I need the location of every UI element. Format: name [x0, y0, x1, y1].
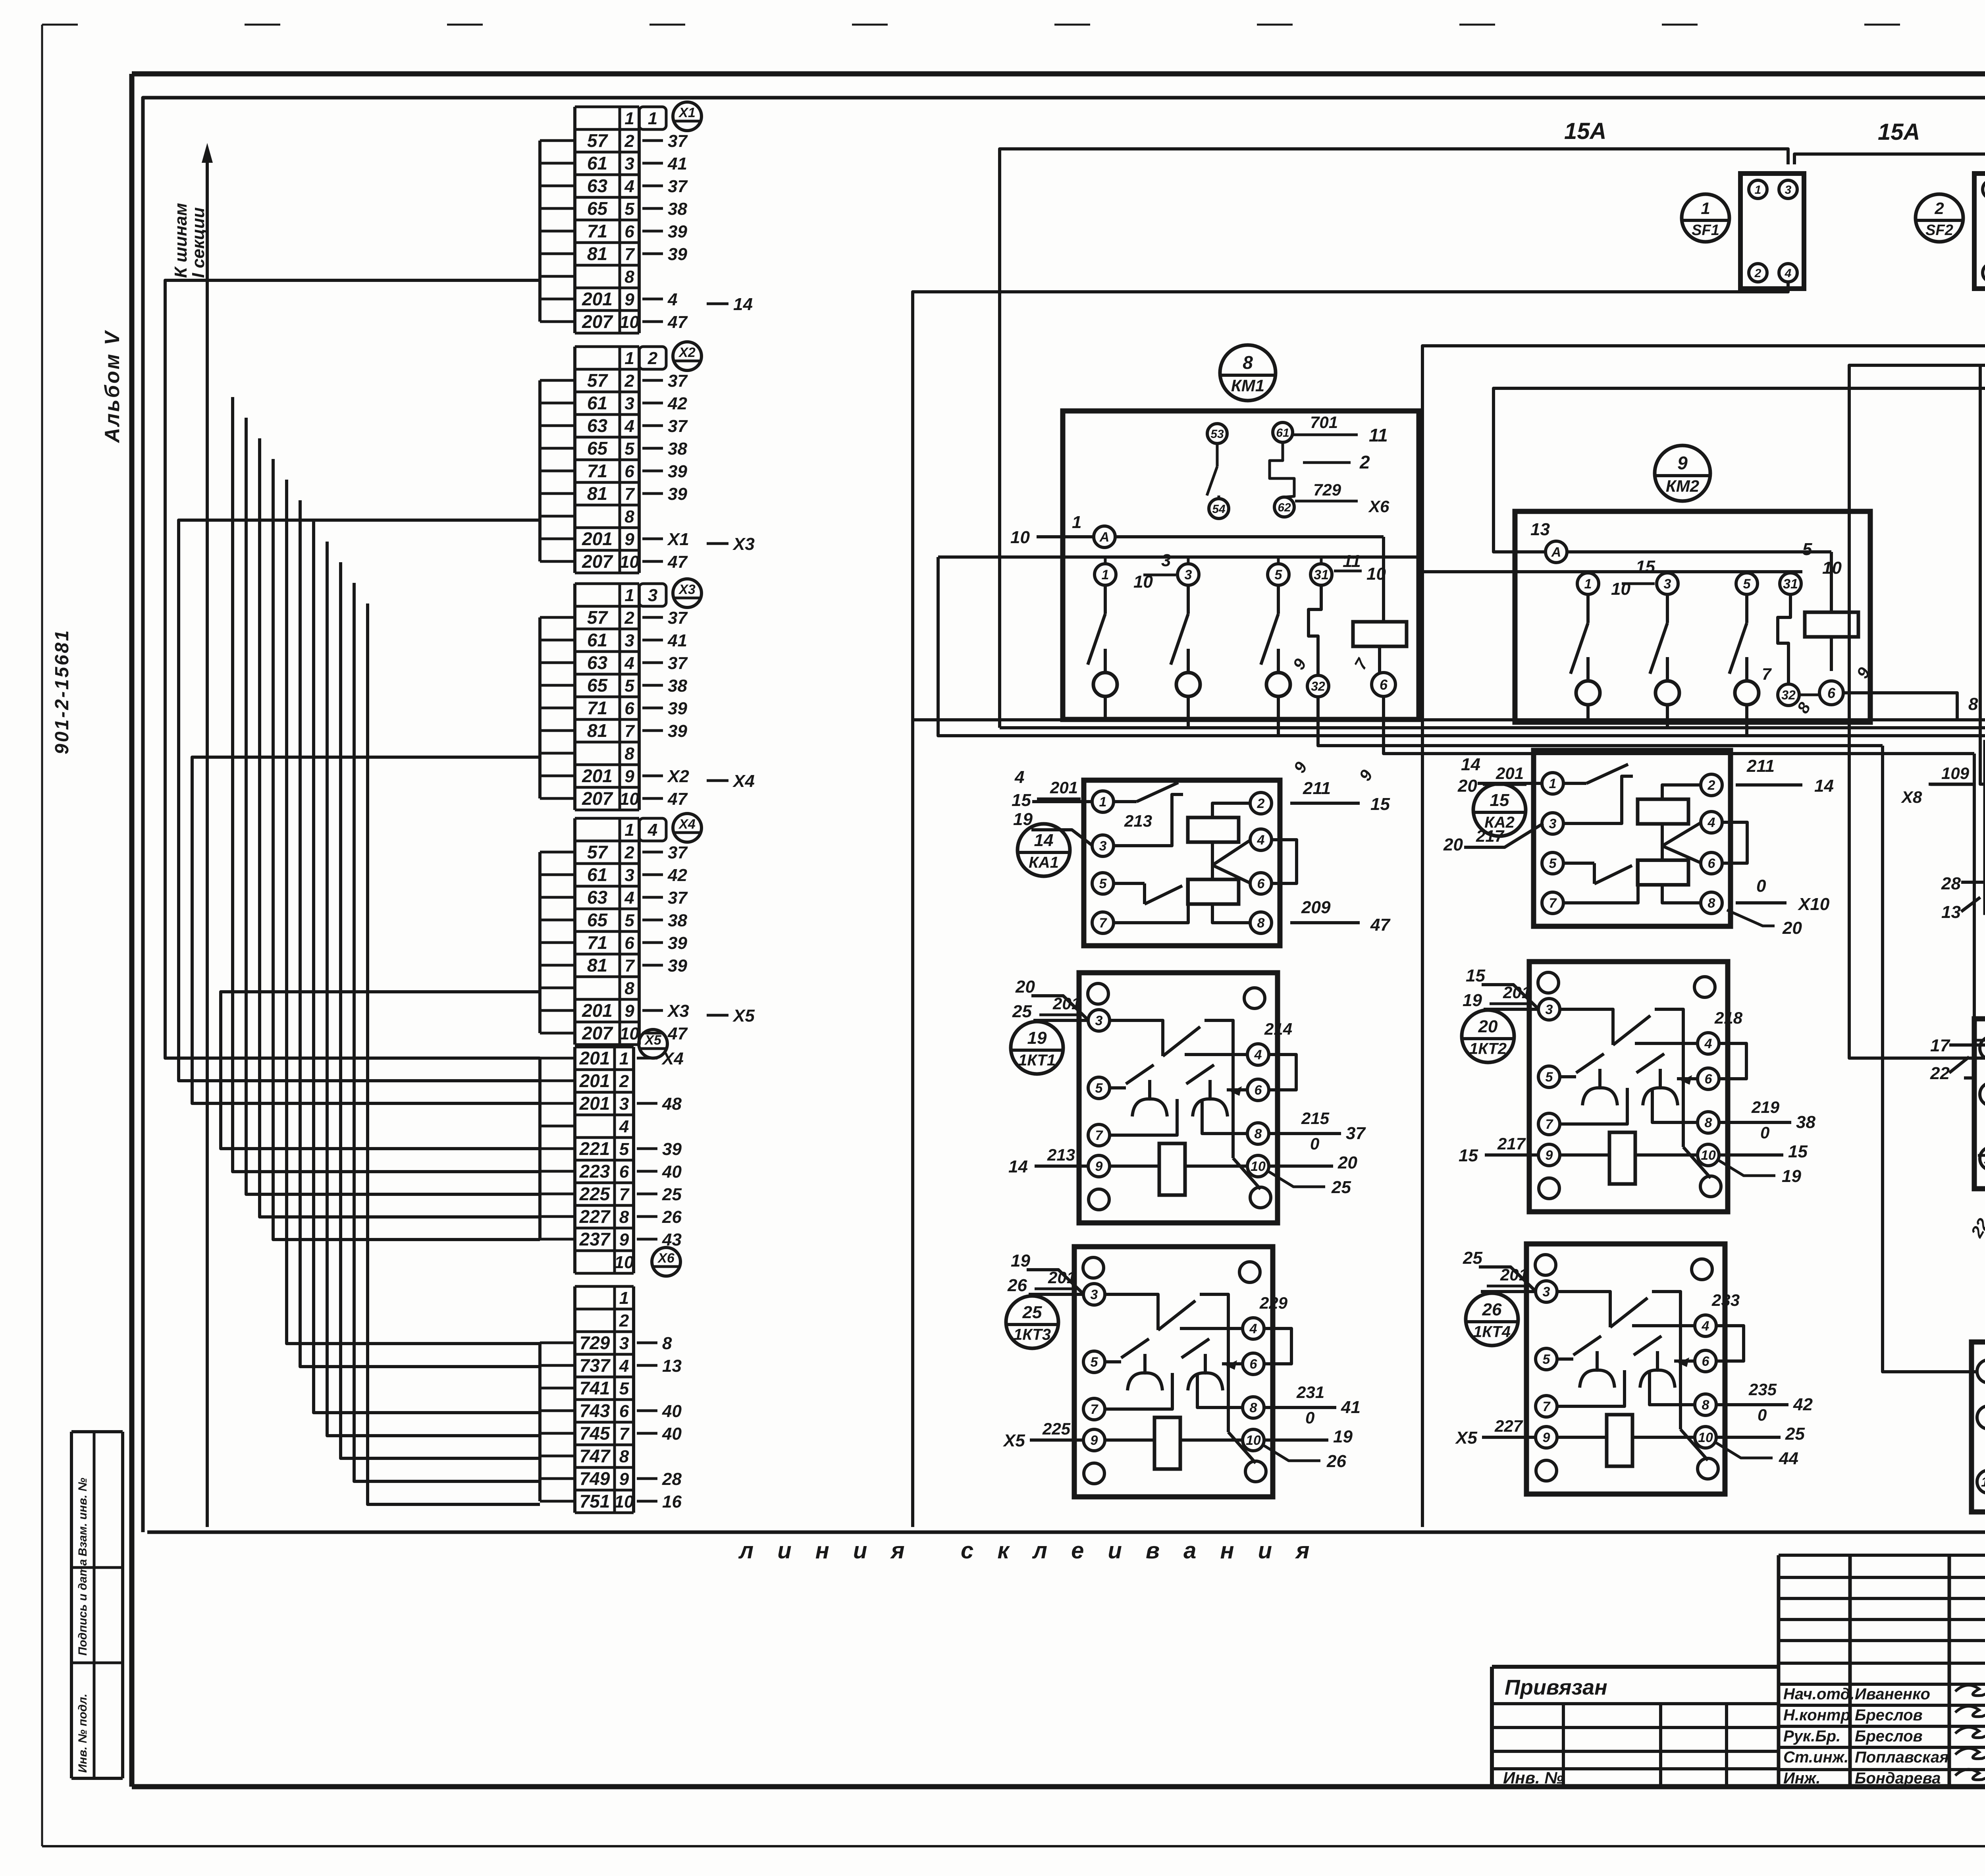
relay K: [1982, 461, 1985, 783]
svg-text:26: 26: [662, 1207, 682, 1227]
svg-text:233: 233: [1711, 1291, 1740, 1309]
svg-text:5: 5: [619, 1379, 629, 1398]
svg-text:201: 201: [1495, 764, 1524, 783]
svg-text:47: 47: [667, 552, 688, 572]
svg-text:1: 1: [624, 820, 634, 840]
svg-text:4: 4: [1704, 1036, 1712, 1051]
svg-text:25: 25: [1785, 1424, 1805, 1444]
svg-text:53: 53: [1210, 428, 1224, 441]
svg-text:5: 5: [1549, 856, 1557, 871]
svg-text:6: 6: [1705, 1072, 1713, 1087]
svg-text:7: 7: [1546, 1117, 1554, 1132]
svg-text:9: 9: [1543, 1430, 1550, 1445]
svg-text:47: 47: [667, 1024, 688, 1043]
svg-text:Привязан: Привязан: [1505, 1675, 1607, 1699]
svg-text:201: 201: [582, 528, 613, 549]
svg-text:42: 42: [667, 394, 687, 413]
svg-text:5: 5: [1099, 876, 1107, 891]
svg-text:4: 4: [1257, 833, 1265, 848]
svg-text:9: 9: [624, 530, 634, 549]
svg-text:729: 729: [1313, 480, 1341, 499]
svg-text:7: 7: [1762, 665, 1772, 683]
15A bus wire SF1-SF2: [1794, 119, 1985, 164]
svg-text:32: 32: [1781, 688, 1796, 702]
svg-text:1: 1: [1102, 567, 1109, 582]
svg-text:26: 26: [1007, 1276, 1027, 1295]
svg-text:15: 15: [1012, 791, 1031, 810]
svg-text:19: 19: [1027, 1028, 1047, 1048]
svg-text:7: 7: [624, 721, 635, 741]
svg-text:10: 10: [620, 312, 639, 332]
svg-text:8: 8: [1250, 1400, 1257, 1415]
svg-text:3: 3: [624, 866, 634, 885]
svg-text:62: 62: [1278, 501, 1291, 514]
svg-text:9: 9: [1546, 1148, 1553, 1163]
svg-text:6: 6: [619, 1162, 629, 1182]
relay KA2: [1443, 750, 1834, 938]
svg-text:15: 15: [1370, 794, 1390, 814]
svg-text:39: 39: [662, 1139, 682, 1159]
svg-text:3: 3: [648, 586, 657, 605]
svg-text:7: 7: [619, 1424, 630, 1444]
svg-text:13: 13: [662, 1356, 682, 1376]
svg-text:7: 7: [1091, 1402, 1099, 1417]
svg-text:237: 237: [579, 1229, 611, 1249]
svg-text:20: 20: [1457, 776, 1477, 796]
svg-text:2: 2: [624, 131, 634, 151]
svg-text:38: 38: [668, 199, 687, 219]
svg-text:8: 8: [624, 744, 634, 764]
svg-text:37: 37: [668, 843, 688, 862]
svg-text:0: 0: [1758, 1406, 1767, 1424]
svg-text:X1: X1: [678, 105, 696, 120]
svg-text:81: 81: [587, 720, 607, 741]
svg-text:8: 8: [619, 1447, 629, 1466]
svg-text:9: 9: [619, 1469, 629, 1489]
svg-text:1: 1: [624, 586, 634, 605]
svg-text:4: 4: [624, 888, 634, 908]
svg-text:743: 743: [580, 1400, 610, 1421]
svg-text:81: 81: [587, 955, 607, 976]
svg-text:20: 20: [1478, 1017, 1498, 1036]
svg-text:71: 71: [587, 221, 607, 241]
svg-text:13: 13: [1981, 1475, 1985, 1490]
svg-text:37: 37: [668, 131, 688, 151]
svg-text:10: 10: [620, 1024, 639, 1043]
svg-text:901-2-15681: 901-2-15681: [52, 629, 73, 754]
svg-text:40: 40: [662, 1402, 682, 1421]
svg-text:1: 1: [619, 1288, 629, 1308]
svg-text:10: 10: [1611, 579, 1630, 599]
svg-text:Н.контр: Н.контр: [1783, 1706, 1850, 1724]
svg-text:39: 39: [668, 956, 687, 976]
bus wire L2: [1000, 726, 1985, 729]
svg-text:8: 8: [1708, 896, 1715, 911]
svg-text:2: 2: [619, 1072, 629, 1091]
svg-text:7: 7: [624, 245, 635, 264]
svg-text:6: 6: [624, 222, 634, 241]
svg-text:207: 207: [582, 788, 613, 809]
svg-text:9: 9: [619, 1230, 629, 1249]
svg-text:223: 223: [579, 1161, 610, 1182]
svg-text:6: 6: [619, 1402, 629, 1421]
svg-text:8: 8: [1968, 694, 1978, 714]
wires KM1 poles down: [1105, 696, 1278, 736]
svg-text:47: 47: [667, 312, 688, 332]
svg-text:X2: X2: [678, 345, 696, 360]
svg-text:3: 3: [1664, 576, 1671, 592]
svg-text:16: 16: [662, 1492, 682, 1512]
svg-text:63: 63: [587, 175, 608, 196]
svg-text:10: 10: [615, 1253, 634, 1272]
svg-text:КМ1: КМ1: [1231, 376, 1264, 395]
svg-text:4: 4: [624, 416, 634, 436]
svg-text:0: 0: [1305, 1408, 1314, 1427]
wires below KM1: [1290, 696, 1974, 784]
svg-text:л и н и я: л и н и я: [738, 1538, 913, 1564]
svg-text:37: 37: [668, 608, 688, 628]
wire to 2-KB pin 22: [1964, 754, 1974, 1078]
svg-text:14: 14: [1008, 1157, 1028, 1176]
svg-text:2: 2: [648, 349, 658, 368]
breaker SF1: [1682, 174, 1804, 289]
svg-text:X10: X10: [1797, 895, 1830, 914]
svg-text:219: 219: [1751, 1098, 1780, 1116]
svg-text:X4: X4: [678, 817, 696, 832]
svg-text:Инж.: Инж.: [1783, 1770, 1821, 1787]
svg-text:63: 63: [587, 887, 608, 908]
svg-text:13: 13: [1530, 520, 1550, 539]
svg-text:201: 201: [582, 765, 613, 786]
svg-text:61: 61: [587, 393, 607, 413]
svg-text:1: 1: [1584, 576, 1592, 592]
wire bundle left margin: [165, 280, 540, 1504]
svg-text:71: 71: [587, 461, 607, 481]
svg-text:229: 229: [1259, 1294, 1288, 1312]
svg-text:38: 38: [668, 911, 687, 930]
svg-text:A: A: [1099, 530, 1110, 545]
terminal block X4: [540, 814, 755, 1045]
svg-text:2: 2: [624, 843, 634, 862]
svg-text:10: 10: [620, 789, 639, 809]
svg-text:Бондарева: Бондарева: [1855, 1770, 1941, 1787]
time relay 1KT4: [1455, 1244, 1813, 1494]
svg-text:7: 7: [619, 1185, 630, 1204]
svg-text:25: 25: [1331, 1178, 1351, 1197]
svg-text:3: 3: [1185, 567, 1192, 582]
svg-text:4: 4: [648, 820, 657, 840]
svg-text:SF2: SF2: [1925, 222, 1953, 239]
svg-text:X3: X3: [667, 1001, 689, 1021]
svg-text:7: 7: [1543, 1399, 1551, 1414]
svg-text:2: 2: [1257, 796, 1265, 811]
svg-text:217: 217: [1497, 1134, 1526, 1153]
svg-text:1: 1: [624, 349, 634, 368]
svg-text:4: 4: [619, 1117, 629, 1136]
svg-text:19: 19: [1463, 991, 1482, 1010]
svg-text:201: 201: [579, 1070, 610, 1091]
svg-text:218: 218: [1714, 1008, 1743, 1027]
svg-text:1: 1: [1755, 183, 1761, 197]
svg-text:Ст.инж.: Ст.инж.: [1783, 1749, 1848, 1766]
svg-text:5: 5: [624, 911, 634, 930]
svg-text:5: 5: [1095, 1081, 1103, 1096]
svg-text:57: 57: [587, 130, 609, 151]
svg-text:749: 749: [580, 1468, 610, 1489]
svg-text:1: 1: [1072, 513, 1081, 532]
bus arrow to К шинам: [202, 143, 213, 1527]
svg-text:61: 61: [587, 864, 607, 885]
svg-text:8: 8: [1702, 1398, 1709, 1413]
svg-text:6: 6: [1827, 685, 1836, 701]
svg-text:3: 3: [624, 631, 634, 650]
svg-text:5: 5: [624, 439, 634, 459]
svg-text:31: 31: [1314, 567, 1329, 582]
svg-text:207: 207: [582, 311, 613, 332]
svg-text:3: 3: [1161, 551, 1171, 570]
svg-text:7: 7: [1099, 916, 1108, 931]
svg-text:5: 5: [624, 199, 634, 219]
svg-text:47: 47: [667, 789, 688, 809]
svg-text:2: 2: [619, 1311, 629, 1330]
svg-text:6: 6: [624, 462, 634, 481]
svg-text:4: 4: [1249, 1321, 1257, 1336]
svg-text:Бреслов: Бреслов: [1855, 1706, 1923, 1724]
svg-text:14: 14: [1814, 776, 1834, 796]
svg-text:227: 227: [1494, 1417, 1523, 1435]
svg-text:7: 7: [1549, 896, 1557, 911]
svg-text:19: 19: [1011, 1251, 1030, 1271]
svg-text:5: 5: [1743, 576, 1751, 592]
svg-text:Бреслов: Бреслов: [1855, 1728, 1923, 1745]
svg-text:8: 8: [1255, 1126, 1262, 1141]
svg-text:81: 81: [587, 243, 607, 264]
svg-text:2: 2: [1934, 199, 1944, 218]
svg-text:225: 225: [579, 1184, 611, 1204]
svg-text:19: 19: [1333, 1427, 1353, 1446]
svg-text:8: 8: [624, 507, 634, 526]
svg-text:213: 213: [1047, 1145, 1075, 1164]
svg-text:201: 201: [579, 1048, 610, 1068]
svg-text:5: 5: [624, 676, 634, 696]
svg-text:211: 211: [1303, 779, 1331, 798]
terminal block X2: [540, 342, 755, 573]
svg-text:26: 26: [1482, 1300, 1502, 1319]
relay 2K1: [1901, 679, 1985, 963]
breaker SF2: [1916, 174, 1985, 289]
svg-text:201: 201: [582, 1000, 613, 1021]
svg-text:63: 63: [587, 415, 608, 436]
svg-text:7: 7: [1095, 1128, 1104, 1143]
svg-text:X6: X6: [657, 1251, 675, 1266]
svg-text:9: 9: [1677, 453, 1688, 473]
svg-text:39: 39: [668, 245, 687, 264]
terminal block X5: [540, 1030, 684, 1273]
svg-text:3: 3: [1099, 839, 1107, 854]
svg-text:15A: 15A: [1878, 119, 1920, 145]
svg-text:1КТ1: 1КТ1: [1018, 1052, 1056, 1069]
svg-text:20: 20: [1782, 918, 1802, 938]
svg-text:25: 25: [1012, 1002, 1032, 1021]
svg-text:37: 37: [668, 888, 688, 908]
svg-text:X5: X5: [732, 1006, 755, 1026]
svg-text:1: 1: [1099, 794, 1107, 810]
svg-text:X5: X5: [644, 1033, 662, 1048]
svg-text:X4: X4: [732, 771, 755, 791]
svg-text:65: 65: [587, 675, 608, 696]
svg-text:0: 0: [1310, 1134, 1319, 1153]
svg-text:2: 2: [1707, 778, 1715, 793]
svg-text:47: 47: [1370, 915, 1391, 935]
bus wire L1: [913, 718, 1985, 721]
svg-text:8: 8: [624, 267, 634, 287]
svg-text:A: A: [1551, 545, 1561, 560]
svg-text:215: 215: [1301, 1109, 1330, 1128]
svg-text:Инв. № подл.: Инв. № подл.: [76, 1694, 89, 1773]
svg-text:20: 20: [1443, 835, 1463, 854]
svg-text:747: 747: [580, 1446, 611, 1466]
svg-text:Иваненко: Иваненко: [1855, 1685, 1930, 1703]
glue line (линия склеивания): [147, 1531, 1985, 1534]
svg-text:4: 4: [619, 1356, 629, 1376]
svg-text:207: 207: [582, 551, 613, 572]
svg-text:3: 3: [619, 1094, 629, 1114]
svg-text:6: 6: [1708, 856, 1716, 871]
svg-text:X1: X1: [667, 530, 689, 549]
contactor KM2: [1422, 445, 1978, 722]
svg-text:65: 65: [587, 198, 608, 219]
svg-text:I секции: I секции: [189, 207, 208, 278]
svg-text:65: 65: [587, 438, 608, 459]
svg-text:11: 11: [1369, 425, 1388, 445]
svg-text:1: 1: [619, 1049, 629, 1068]
svg-text:211: 211: [1746, 756, 1775, 776]
svg-text:39: 39: [668, 462, 687, 481]
svg-text:26: 26: [1326, 1452, 1346, 1471]
svg-text:3: 3: [1543, 1284, 1550, 1300]
svg-text:0: 0: [1756, 876, 1766, 896]
relay 2-KB: [1930, 955, 1985, 1245]
svg-text:5: 5: [1543, 1352, 1551, 1367]
svg-text:37: 37: [668, 371, 688, 391]
contactor KM1: [938, 345, 1419, 719]
svg-text:741: 741: [580, 1378, 610, 1398]
svg-text:28: 28: [662, 1469, 682, 1489]
relay KA1: [1012, 767, 1391, 946]
svg-text:4: 4: [624, 177, 634, 196]
svg-text:31: 31: [1783, 576, 1798, 592]
svg-text:9: 9: [1095, 1159, 1103, 1174]
svg-text:10: 10: [1010, 528, 1030, 547]
svg-text:37: 37: [668, 177, 688, 196]
time relay 1KT3: [1002, 1247, 1361, 1497]
svg-text:217: 217: [1476, 827, 1505, 845]
svg-text:19: 19: [1013, 810, 1033, 829]
svg-text:2: 2: [1359, 452, 1370, 472]
svg-text:745: 745: [580, 1423, 611, 1444]
svg-text:5: 5: [1802, 540, 1812, 559]
svg-text:X5: X5: [1455, 1428, 1477, 1448]
svg-text:42: 42: [1793, 1395, 1813, 1414]
svg-text:20: 20: [1337, 1153, 1357, 1172]
svg-text:1КТ2: 1КТ2: [1469, 1040, 1507, 1058]
svg-text:10: 10: [620, 552, 639, 572]
svg-text:201: 201: [1050, 778, 1078, 797]
terminal block X3: [540, 579, 755, 810]
svg-text:8: 8: [1257, 916, 1265, 931]
svg-text:X6: X6: [1368, 497, 1389, 516]
wire SF3 output: [1422, 282, 1985, 1527]
wire SF1 output: [913, 282, 1788, 720]
svg-text:4: 4: [1254, 1047, 1262, 1062]
svg-text:5: 5: [1091, 1355, 1098, 1370]
svg-text:X3: X3: [678, 582, 696, 597]
svg-text:3: 3: [624, 394, 634, 413]
svg-text:Взам. инв. №: Взам. инв. №: [76, 1478, 89, 1556]
svg-text:X2: X2: [667, 767, 689, 786]
svg-text:71: 71: [587, 698, 607, 718]
svg-text:3: 3: [624, 154, 634, 174]
svg-text:SF1: SF1: [1692, 222, 1719, 239]
wire SF4 line down to 2K1: [1980, 365, 1985, 784]
svg-text:15: 15: [1636, 557, 1655, 576]
wire loop around schematic: [143, 98, 1985, 1532]
svg-text:5: 5: [1275, 567, 1283, 582]
svg-text:6: 6: [624, 933, 634, 953]
svg-text:8: 8: [619, 1207, 629, 1227]
svg-text:Инв. №: Инв. №: [1503, 1768, 1563, 1787]
relay 2-KA: [1972, 1278, 1985, 1531]
svg-text:38: 38: [668, 676, 687, 696]
svg-text:X3: X3: [732, 534, 755, 554]
svg-text:2: 2: [1754, 267, 1761, 280]
svg-text:737: 737: [580, 1355, 611, 1376]
svg-text:6: 6: [1257, 876, 1265, 891]
svg-text:1: 1: [1701, 199, 1710, 218]
svg-text:235: 235: [1748, 1380, 1777, 1399]
svg-text:701: 701: [1310, 413, 1338, 432]
svg-text:1: 1: [648, 109, 657, 128]
time relay 1KT2: [1459, 962, 1815, 1212]
svg-text:3: 3: [1785, 183, 1792, 197]
terminal block X6: [540, 1247, 682, 1513]
svg-text:8: 8: [1705, 1115, 1712, 1130]
svg-text:37: 37: [668, 416, 688, 436]
svg-text:17: 17: [1930, 1036, 1950, 1055]
svg-text:4: 4: [1707, 815, 1715, 830]
svg-text:54: 54: [1212, 503, 1226, 516]
svg-text:7: 7: [624, 484, 635, 504]
svg-text:57: 57: [587, 607, 609, 628]
svg-text:15: 15: [1459, 1146, 1478, 1165]
svg-text:1: 1: [1549, 776, 1557, 791]
svg-text:19: 19: [1782, 1166, 1801, 1186]
svg-text:39: 39: [668, 933, 687, 953]
svg-text:6: 6: [624, 699, 634, 718]
svg-text:5: 5: [619, 1139, 629, 1159]
svg-text:9: 9: [624, 1001, 634, 1021]
svg-text:39: 39: [668, 699, 687, 718]
svg-text:41: 41: [1341, 1398, 1361, 1417]
svg-text:Поплавская: Поплавская: [1855, 1749, 1949, 1766]
svg-text:225: 225: [1042, 1419, 1071, 1438]
terminal block X1: [540, 102, 753, 333]
svg-text:5: 5: [1546, 1070, 1553, 1085]
svg-text:6: 6: [1702, 1354, 1710, 1369]
svg-text:3: 3: [619, 1334, 629, 1353]
svg-text:1КТ4: 1КТ4: [1473, 1323, 1511, 1341]
svg-text:39: 39: [668, 222, 687, 241]
